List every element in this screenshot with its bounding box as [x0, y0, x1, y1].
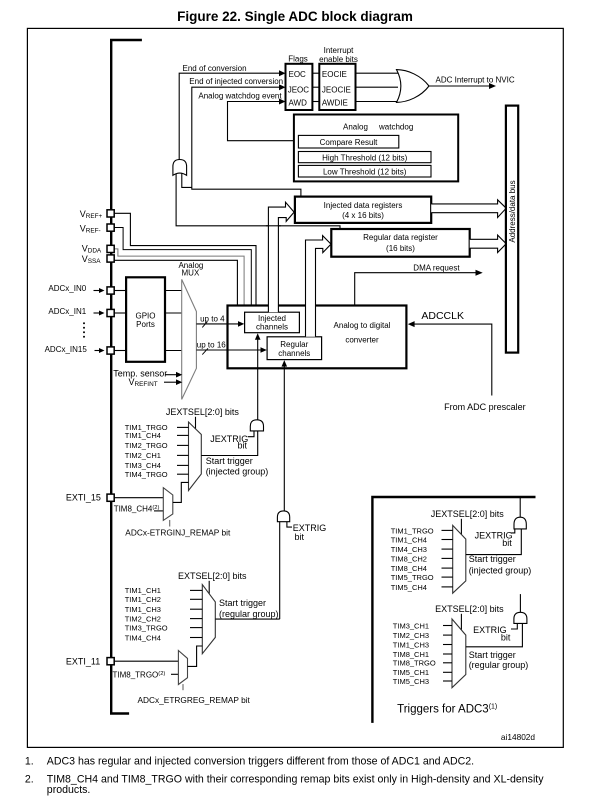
svg-text:TIM2_CH2: TIM2_CH2: [125, 614, 161, 623]
wire EXTRIG gate input: [279, 522, 281, 619]
svg-text:TIM1_CH4: TIM1_CH4: [391, 535, 427, 544]
svg-text:bit: bit: [295, 532, 305, 542]
svg-text:TIM5_CH4: TIM5_CH4: [391, 583, 427, 592]
wire EOC: from OR gate up and to EOC flag: [179, 73, 281, 159]
svg-text:TIM3_CH4: TIM3_CH4: [125, 461, 161, 470]
svg-text:Analog watchdog: Analog watchdog: [343, 123, 413, 132]
dots ellipsis: [83, 322, 85, 324]
arrow temp sensor to mux: [166, 374, 178, 376]
svg-text:TIM4_TRGO: TIM4_TRGO: [125, 470, 168, 479]
pad square VDDA: [107, 245, 114, 252]
svg-text:TIM4_CH4: TIM4_CH4: [125, 633, 161, 642]
svg-text:1.: 1.: [25, 756, 34, 768]
svg-text:TIM8_TRGO(2): TIM8_TRGO(2): [113, 670, 166, 679]
wire JEXTSEL select stub: [195, 417, 197, 429]
wire JEOC flag to JEOCIE: [312, 86, 319, 88]
svg-text:End of conversion: End of conversion: [183, 64, 247, 73]
svg-text:products.: products.: [47, 784, 91, 796]
svg-text:(regular group): (regular group): [469, 660, 529, 670]
svg-text:High Threshold (12 bits): High Threshold (12 bits): [322, 154, 408, 163]
injected data registers box: [295, 197, 431, 223]
arrowhead into EOC: [279, 70, 286, 76]
wire up to 4: [196, 323, 240, 325]
svg-text:enable bits: enable bits: [319, 55, 358, 64]
svg-text:(4 x 16 bits): (4 x 16 bits): [342, 211, 384, 220]
wire JEXTRIG gate output to injected channels: [257, 339, 259, 420]
dash TIM8_CH4 to remap mux: [154, 510, 163, 512]
svg-text:ADCx_IN15: ADCx_IN15: [45, 345, 88, 354]
dash EXTRIG label to gate (ADC3): [511, 624, 517, 630]
svg-text:Injected data registers: Injected data registers: [324, 201, 403, 210]
wire VSSA supply: [114, 260, 237, 304]
arrowhead ADCCLK into converter: [408, 321, 415, 327]
ADC3 triggers box (partial border): [372, 497, 535, 723]
address/data bus bar: [506, 106, 518, 353]
svg-text:EXTSEL[2:0] bits: EXTSEL[2:0] bits: [178, 571, 247, 581]
bus arrow regular register to address bus: [470, 235, 507, 252]
ADC converter box: [228, 306, 407, 369]
svg-text:ADCx_IN0: ADCx_IN0: [48, 284, 86, 293]
svg-text:TIM2_TRGO: TIM2_TRGO: [125, 441, 168, 450]
svg-text:Analog watchdog event: Analog watchdog event: [198, 92, 282, 101]
arrow VREFINT to mux: [164, 381, 178, 383]
pad square IN15: [107, 347, 114, 354]
mux ADC3 injected trigger: [453, 525, 466, 593]
svg-text:Low Threshold (12 bits): Low Threshold (12 bits): [323, 168, 407, 177]
arrowhead into AWD: [279, 99, 286, 105]
svg-text:From ADC prescaler: From ADC prescaler: [444, 402, 526, 412]
svg-text:ADC Interrupt to NVIC: ADC Interrupt to NVIC: [436, 76, 515, 85]
svg-text:JEXTSEL[2:0] bits: JEXTSEL[2:0] bits: [431, 509, 505, 519]
svg-text:Start trigger: Start trigger: [469, 554, 516, 564]
mux remap regular: [178, 651, 187, 685]
dash JEXTRIG label to gate: [248, 431, 254, 437]
wire JEOC: from injected data registers top up to JEOC flag: [192, 87, 301, 196]
svg-text:JEOCIE: JEOCIE: [322, 85, 351, 94]
wire JEXTRIG ADC3 gate output: [519, 498, 521, 517]
supply rail: [111, 40, 142, 714]
arrowhead into injected channels bottom: [255, 333, 261, 340]
wire ADCCLK from prescaler: [414, 324, 492, 395]
bus arrow injected registers to address bus: [431, 200, 506, 218]
svg-text:Flags: Flags: [288, 55, 308, 64]
svg-text:TIM5_CH1: TIM5_CH1: [393, 668, 429, 677]
arrow ADCx_IN1: [94, 312, 101, 314]
svg-text:Regular: Regular: [280, 340, 308, 349]
wire up to 16: [196, 349, 262, 351]
svg-text:TIM5_TRGO: TIM5_TRGO: [391, 573, 434, 582]
wire VDDA supply: [114, 249, 244, 305]
OR gate EOC combine: [173, 160, 187, 176]
arrowhead DMA request: [476, 270, 483, 276]
low threshold box: [298, 165, 431, 177]
arrow ADCx_IN15: [95, 350, 101, 352]
svg-text:TIM1_CH4: TIM1_CH4: [125, 431, 161, 440]
svg-text:channels: channels: [278, 349, 310, 358]
svg-text:bit: bit: [238, 441, 248, 451]
svg-text:Address/data bus: Address/data bus: [508, 180, 517, 242]
arrow ADCx_IN0: [94, 290, 101, 292]
svg-text:JEOC: JEOC: [288, 85, 310, 94]
svg-text:TIM8_CH4 and TIM8_TRGO with th: TIM8_CH4 and TIM8_TRGO with their corres…: [47, 774, 544, 786]
svg-text:TIM1_CH3: TIM1_CH3: [125, 605, 161, 614]
svg-text:MUX: MUX: [182, 269, 200, 278]
svg-text:Triggers for ADC3(1): Triggers for ADC3(1): [397, 704, 497, 716]
wire ADC3 regular mux output to gate: [466, 623, 523, 646]
AND gate EXTRIG: [277, 511, 289, 522]
compare result box: [298, 135, 398, 148]
svg-text:TIM3_CH1: TIM3_CH1: [393, 621, 429, 630]
wire remap mux output to trigger mux: [173, 482, 189, 502]
wire regular trigger mux output: [215, 618, 279, 620]
svg-text:Figure 22. Single ADC block di: Figure 22. Single ADC block diagram: [177, 9, 413, 24]
arrowhead into regular channels bottom: [282, 360, 288, 367]
svg-text:bit: bit: [501, 632, 511, 642]
svg-text:ADC3 has regular and injected: ADC3 has regular and injected conversion…: [47, 756, 474, 768]
wire VREF- supply: [114, 228, 251, 305]
regular data register box: [331, 229, 469, 257]
svg-text:EOCIE: EOCIE: [322, 70, 347, 79]
svg-text:EOC: EOC: [289, 70, 307, 79]
interrupt enable box: [319, 64, 355, 110]
dash TIM8_TRGO to remap mux: [171, 673, 178, 675]
AND gate JEXTRIG (ADC3): [514, 517, 526, 529]
pad square VSSA: [107, 255, 114, 262]
svg-text:EXTI_11: EXTI_11: [66, 656, 100, 666]
svg-text:2.: 2.: [25, 774, 34, 786]
svg-text:up to 16: up to 16: [197, 341, 226, 350]
svg-text:Start trigger: Start trigger: [219, 598, 266, 608]
svg-text:channels: channels: [256, 323, 288, 332]
wire JEOCIE to OR gate: [356, 86, 399, 88]
wire JEXTSEL stub (ADC3): [460, 519, 462, 535]
svg-text:Temp. sensor: Temp. sensor: [113, 369, 167, 379]
input dashes injected trigger mux: [177, 426, 189, 428]
svg-text:TIM8_CH1: TIM8_CH1: [393, 650, 429, 659]
GPIO ports box: [126, 277, 165, 362]
svg-text:(16 bits): (16 bits): [386, 244, 415, 253]
input dashes ADC3 regular mux: [443, 625, 452, 627]
svg-text:TIM8_CH2: TIM8_CH2: [391, 554, 427, 563]
high threshold box: [298, 152, 431, 163]
mux ADC3 regular trigger: [452, 619, 466, 688]
svg-text:TIM3_TRGO: TIM3_TRGO: [125, 623, 168, 632]
svg-text:DMA request: DMA request: [413, 263, 460, 272]
arrowhead ADC interrupt: [489, 83, 496, 89]
wire AWD flag to AWDIE: [312, 101, 319, 103]
analog watchdog box: [294, 115, 458, 182]
wire remap regular output to trigger mux: [188, 646, 203, 666]
wire VREF+ supply: [114, 213, 256, 304]
svg-text:TIM1_CH3: TIM1_CH3: [393, 640, 429, 649]
wire EXTI_15 to remap mux: [114, 497, 163, 499]
svg-text:ADCx-ETRGINJ_REMAP bit: ADCx-ETRGINJ_REMAP bit: [125, 528, 231, 538]
svg-text:Start trigger: Start trigger: [469, 650, 516, 660]
svg-text:Ports: Ports: [136, 320, 155, 329]
wire AWD event: from Compare Result left to AWD flag: [228, 102, 299, 141]
svg-text:EXTSEL[2:0] bits: EXTSEL[2:0] bits: [435, 604, 504, 614]
AND gate EXTRIG (ADC3): [514, 612, 527, 623]
svg-text:EXTI_15: EXTI_15: [66, 492, 101, 502]
wire DMA request from ADC block: [355, 273, 477, 305]
wire EXTRIG gate output to regular channels: [283, 366, 285, 511]
pad square IN0: [107, 287, 114, 294]
bus shaft regular channels to regular data register: [306, 236, 332, 337]
figure frame: [27, 28, 563, 747]
svg-text:Start trigger: Start trigger: [206, 456, 253, 466]
wire IN15 to GPIO: [114, 350, 126, 352]
wire ADC3 injected mux output to gate: [466, 529, 522, 555]
svg-text:ADCx_IN1: ADCx_IN1: [48, 307, 86, 316]
mux injected trigger: [189, 422, 202, 491]
svg-text:(regular group): (regular group): [219, 609, 279, 619]
wire GPIO to mux row15: [165, 350, 182, 352]
svg-text:TIM8_TRGO: TIM8_TRGO: [393, 659, 436, 668]
wire EOC flag to EOCIE: [312, 72, 319, 74]
stub below remap mux regular: [182, 684, 184, 690]
wire GPIO to mux row0: [165, 290, 182, 292]
mux regular trigger: [202, 585, 215, 654]
svg-text:TIM2_CH3: TIM2_CH3: [393, 631, 429, 640]
svg-text:AWD: AWD: [289, 98, 308, 107]
injected channels box: [245, 312, 300, 333]
svg-text:End of injected conversion: End of injected conversion: [189, 77, 283, 86]
wire OR input from injected line: [182, 174, 192, 188]
svg-text:TIM8_CH4: TIM8_CH4: [391, 564, 427, 573]
analog mux shape: [182, 279, 197, 399]
svg-text:TIM1_CH1: TIM1_CH1: [125, 586, 161, 595]
svg-text:up to 4: up to 4: [200, 314, 225, 323]
wire EXTRIG ADC3 gate output: [519, 594, 521, 612]
svg-text:ai14802d: ai14802d: [501, 732, 536, 742]
wire redraw EOC-input crossing the injected shaft: [266, 225, 281, 227]
wire EXTSEL select stub: [208, 581, 210, 594]
wire injected trigger mux output to JEXTRIG gate: [201, 431, 257, 456]
svg-text:TIM5_CH3: TIM5_CH3: [393, 677, 429, 686]
svg-text:AWDIE: AWDIE: [322, 98, 348, 107]
input dashes ADC3 injected mux: [442, 529, 453, 531]
wire EXTI_11 to remap mux: [114, 660, 178, 662]
OR gate U1 interrupt: [397, 70, 430, 103]
arrowhead into JEOC: [279, 84, 286, 90]
svg-text:(injected group): (injected group): [469, 565, 532, 575]
wire EOCIE to OR gate: [356, 72, 401, 74]
svg-text:ADCCLK: ADCCLK: [421, 310, 464, 322]
wire IN0 to GPIO: [114, 290, 126, 292]
svg-text:TIM4_CH3: TIM4_CH3: [391, 545, 427, 554]
wire GPIO to mux row1: [165, 312, 182, 314]
AND gate JEXTRIG: [250, 420, 263, 431]
pad square EXTI_15: [107, 494, 114, 501]
dash EXTRIG label to gate: [287, 522, 292, 527]
wire ADC interrupt output: [429, 85, 490, 87]
svg-text:Compare Result: Compare Result: [320, 138, 379, 147]
pad square EXTI_11: [107, 658, 114, 665]
flags box: [286, 64, 313, 110]
svg-text:converter: converter: [345, 336, 379, 345]
wire EXTSEL stub (ADC3): [460, 614, 462, 630]
wire OR input from regular data register: [176, 174, 340, 229]
dash JEXTRIG label to gate (ADC3): [511, 529, 515, 533]
svg-text:ADCx_ETRGREG_REMAP bit: ADCx_ETRGREG_REMAP bit: [138, 695, 251, 705]
svg-text:(injected group): (injected group): [206, 467, 269, 477]
mux remap injected: [163, 488, 173, 521]
svg-text:Regular data register: Regular data register: [363, 233, 438, 242]
regular channels box: [267, 337, 322, 360]
svg-text:TIM1_CH2: TIM1_CH2: [125, 595, 161, 604]
svg-text:JEXTSEL[2:0] bits: JEXTSEL[2:0] bits: [166, 407, 240, 417]
svg-text:Interrupt: Interrupt: [324, 46, 355, 55]
svg-text:TIM2_CH1: TIM2_CH1: [125, 451, 161, 460]
pad square VREF+: [107, 210, 114, 217]
tick slash up to 16: [202, 348, 208, 354]
tick slash up to 4: [202, 322, 207, 328]
input dashes regular trigger mux: [190, 589, 202, 591]
wire IN1 to GPIO: [114, 312, 126, 314]
svg-text:Analog to digital: Analog to digital: [334, 321, 391, 330]
svg-text:bit: bit: [502, 538, 512, 548]
svg-text:TIM1_TRGO: TIM1_TRGO: [391, 526, 434, 535]
stub below remap mux injected: [169, 520, 171, 527]
pad square VREF-: [107, 224, 114, 231]
wire AWDIE to OR gate: [356, 101, 401, 103]
bus shaft injected channels to injected data registers: [268, 202, 294, 312]
pad square IN1: [107, 309, 114, 316]
